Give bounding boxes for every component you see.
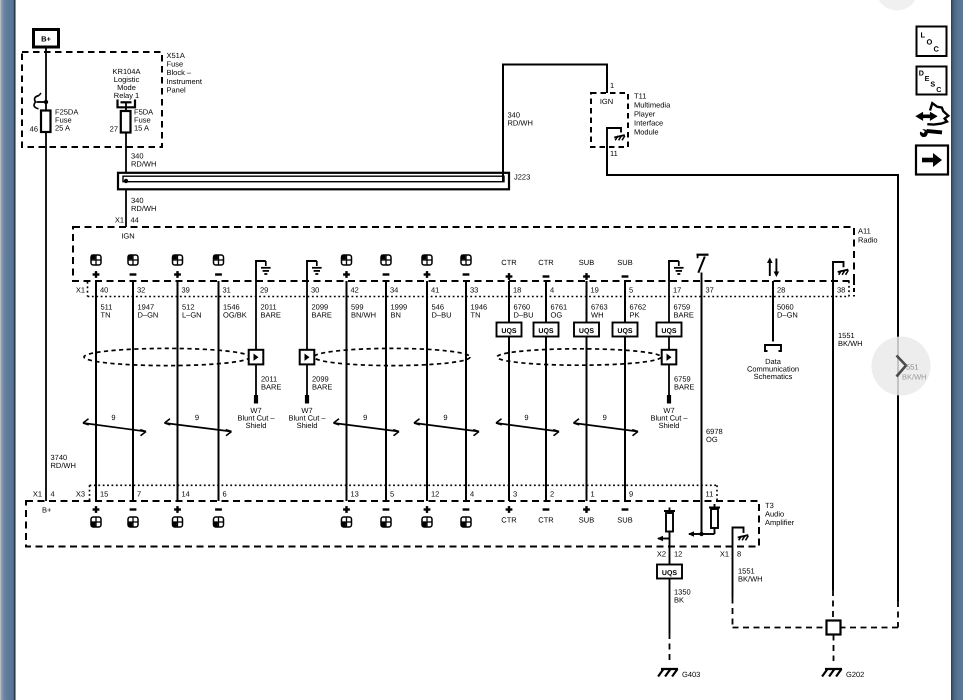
svg-text:BN/WH: BN/WH: [351, 311, 376, 320]
svg-text:UQS: UQS: [617, 328, 633, 335]
svg-text:41: 41: [431, 286, 439, 295]
svg-text:X1: X1: [115, 216, 124, 225]
svg-text:BN: BN: [391, 311, 401, 320]
svg-text:BK: BK: [674, 596, 684, 605]
svg-text:9: 9: [111, 413, 115, 422]
svg-text:17: 17: [673, 286, 681, 295]
svg-text:SUB: SUB: [579, 516, 594, 525]
svg-text:RD/WH: RD/WH: [131, 160, 156, 169]
svg-text:BK/WH: BK/WH: [838, 339, 863, 348]
svg-text:Panel: Panel: [167, 85, 187, 94]
svg-text:BARE: BARE: [312, 311, 332, 320]
svg-text:15 A: 15 A: [134, 124, 149, 133]
svg-text:BARE: BARE: [261, 383, 281, 392]
svg-text:37: 37: [706, 286, 714, 295]
svg-text:Relay 1: Relay 1: [114, 91, 139, 100]
svg-text:40: 40: [100, 286, 108, 295]
svg-text:D–BU: D–BU: [432, 311, 452, 320]
svg-text:SUB: SUB: [617, 258, 632, 267]
svg-text:OG: OG: [551, 311, 563, 320]
svg-text:C: C: [936, 85, 941, 94]
svg-text:A11: A11: [858, 227, 871, 236]
svg-text:BARE: BARE: [312, 383, 332, 392]
svg-text:27: 27: [110, 125, 118, 134]
svg-text:5: 5: [390, 490, 394, 499]
svg-text:19: 19: [591, 286, 599, 295]
svg-text:9: 9: [443, 413, 447, 422]
svg-text:CTR: CTR: [538, 516, 554, 525]
svg-text:Shield: Shield: [246, 421, 267, 430]
svg-text:9: 9: [363, 413, 367, 422]
svg-text:D–GN: D–GN: [138, 311, 159, 320]
svg-text:42: 42: [351, 286, 359, 295]
svg-text:11: 11: [706, 490, 714, 499]
svg-text:TN: TN: [101, 311, 111, 320]
svg-text:T11: T11: [634, 92, 646, 101]
svg-text:UQS: UQS: [661, 328, 677, 335]
svg-text:34: 34: [390, 286, 398, 295]
svg-text:D: D: [919, 69, 924, 78]
svg-text:Schematics: Schematics: [754, 372, 793, 381]
svg-text:551: 551: [906, 363, 919, 372]
svg-text:32: 32: [137, 286, 145, 295]
svg-text:9: 9: [524, 413, 528, 422]
svg-text:UQS: UQS: [501, 328, 517, 335]
svg-text:30: 30: [311, 286, 319, 295]
svg-text:7: 7: [137, 490, 141, 499]
svg-text:RD/WH: RD/WH: [51, 461, 76, 470]
svg-text:CTR: CTR: [501, 258, 517, 267]
svg-text:D–GN: D–GN: [777, 311, 798, 320]
svg-text:Multimedia: Multimedia: [634, 101, 671, 110]
svg-text:25 A: 25 A: [55, 124, 70, 133]
svg-text:4: 4: [470, 490, 474, 499]
svg-text:31: 31: [223, 286, 231, 295]
svg-text:S: S: [930, 80, 935, 89]
svg-text:X1: X1: [76, 286, 85, 295]
svg-text:BARE: BARE: [674, 383, 694, 392]
svg-text:IGN: IGN: [600, 97, 613, 106]
svg-text:14: 14: [182, 490, 190, 499]
svg-text:WH: WH: [591, 311, 604, 320]
svg-text:Amplifier: Amplifier: [765, 518, 795, 527]
svg-text:3: 3: [513, 490, 517, 499]
svg-text:OG/BK: OG/BK: [223, 311, 247, 320]
svg-text:D–BU: D–BU: [514, 311, 534, 320]
svg-text:BK/WH: BK/WH: [738, 575, 763, 584]
svg-text:X1: X1: [33, 490, 42, 499]
svg-text:C: C: [934, 45, 940, 54]
svg-text:28: 28: [777, 286, 785, 295]
svg-text:SUB: SUB: [579, 258, 594, 267]
svg-text:UQS: UQS: [538, 328, 554, 335]
svg-text:UQS: UQS: [579, 328, 595, 335]
svg-text:L: L: [921, 31, 926, 40]
svg-text:Shield: Shield: [297, 421, 318, 430]
svg-text:B+: B+: [42, 506, 52, 515]
svg-text:X3: X3: [76, 490, 85, 499]
svg-text:5: 5: [629, 286, 633, 295]
svg-text:12: 12: [674, 550, 682, 559]
svg-text:9: 9: [629, 490, 633, 499]
svg-text:11: 11: [610, 149, 618, 158]
svg-text:X2: X2: [657, 550, 666, 559]
svg-text:8: 8: [737, 550, 741, 559]
svg-text:44: 44: [131, 216, 139, 225]
svg-text:IGN: IGN: [121, 232, 134, 241]
svg-text:6: 6: [223, 490, 227, 499]
svg-text:1: 1: [610, 81, 614, 90]
svg-text:13: 13: [351, 490, 359, 499]
svg-text:CTR: CTR: [538, 258, 554, 267]
svg-text:Module: Module: [634, 128, 659, 137]
svg-text:SUB: SUB: [617, 516, 632, 525]
svg-text:O: O: [927, 38, 933, 47]
svg-text:38: 38: [837, 286, 845, 295]
svg-text:Player: Player: [634, 110, 656, 119]
svg-text:15: 15: [100, 490, 108, 499]
svg-text:9: 9: [603, 413, 607, 422]
svg-text:46: 46: [30, 125, 38, 134]
svg-text:4: 4: [51, 490, 55, 499]
svg-text:33: 33: [470, 286, 478, 295]
svg-text:RD/WH: RD/WH: [508, 119, 533, 128]
svg-text:BARE: BARE: [261, 311, 281, 320]
svg-text:2: 2: [550, 490, 554, 499]
svg-text:OG: OG: [706, 435, 718, 444]
svg-text:G202: G202: [846, 670, 864, 679]
svg-text:PK: PK: [630, 311, 640, 320]
svg-text:Radio: Radio: [858, 236, 878, 245]
svg-text:9: 9: [195, 413, 199, 422]
svg-text:1: 1: [591, 490, 595, 499]
svg-text:TN: TN: [471, 311, 481, 320]
svg-text:18: 18: [513, 286, 521, 295]
svg-text:RD/WH: RD/WH: [131, 204, 156, 213]
svg-text:12: 12: [431, 490, 439, 499]
svg-text:E: E: [925, 74, 930, 83]
svg-text:CTR: CTR: [501, 516, 517, 525]
svg-text:BK/WH: BK/WH: [902, 373, 927, 382]
svg-text:Interface: Interface: [634, 119, 663, 128]
svg-text:B+: B+: [41, 35, 51, 44]
svg-text:UQS: UQS: [662, 570, 678, 577]
svg-text:Shield: Shield: [659, 421, 680, 430]
svg-text:39: 39: [182, 286, 190, 295]
svg-text:X1: X1: [720, 550, 729, 559]
svg-text:BARE: BARE: [674, 311, 694, 320]
svg-text:4: 4: [550, 286, 554, 295]
svg-text:J223: J223: [514, 173, 530, 182]
svg-text:G403: G403: [682, 670, 700, 679]
svg-text:L–GN: L–GN: [182, 311, 202, 320]
svg-text:29: 29: [260, 286, 268, 295]
